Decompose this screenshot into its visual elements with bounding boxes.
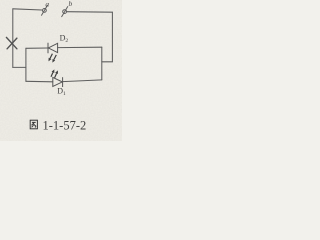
svg-text:a: a: [45, 0, 49, 8]
wire D1 branch right: [63, 80, 102, 82]
wire D1 branch left: [26, 80, 53, 83]
wire left vertical: [12, 9, 14, 68]
svg-text:1-1-57-2: 1-1-57-2: [43, 118, 87, 132]
wire jog bottom-left: [13, 66, 26, 68]
wire inner-right vertical: [101, 47, 103, 80]
LED D2 (points left): [48, 43, 58, 54]
wire tap right: [102, 61, 113, 63]
terminal a: [41, 5, 47, 16]
svg-text:b: b: [69, 0, 73, 8]
D1 emission arrows (up-right): [51, 69, 58, 77]
wire top-left segment: [13, 9, 42, 10]
D2 emission arrows (down-left): [49, 54, 57, 63]
terminal b: [62, 6, 68, 17]
wire top-right segment: [66, 11, 112, 14]
wire D2 branch right: [58, 46, 102, 48]
caption: hand-drawn CJK glyph tu (图): [30, 120, 37, 129]
lamp X on left wire: [6, 37, 17, 48]
wire right vertical: [111, 12, 113, 62]
wire inner-left vertical: [25, 48, 27, 81]
paper background: [0, 0, 122, 141]
wire D2 branch left: [26, 47, 48, 49]
LED D1 (points right): [53, 77, 63, 87]
